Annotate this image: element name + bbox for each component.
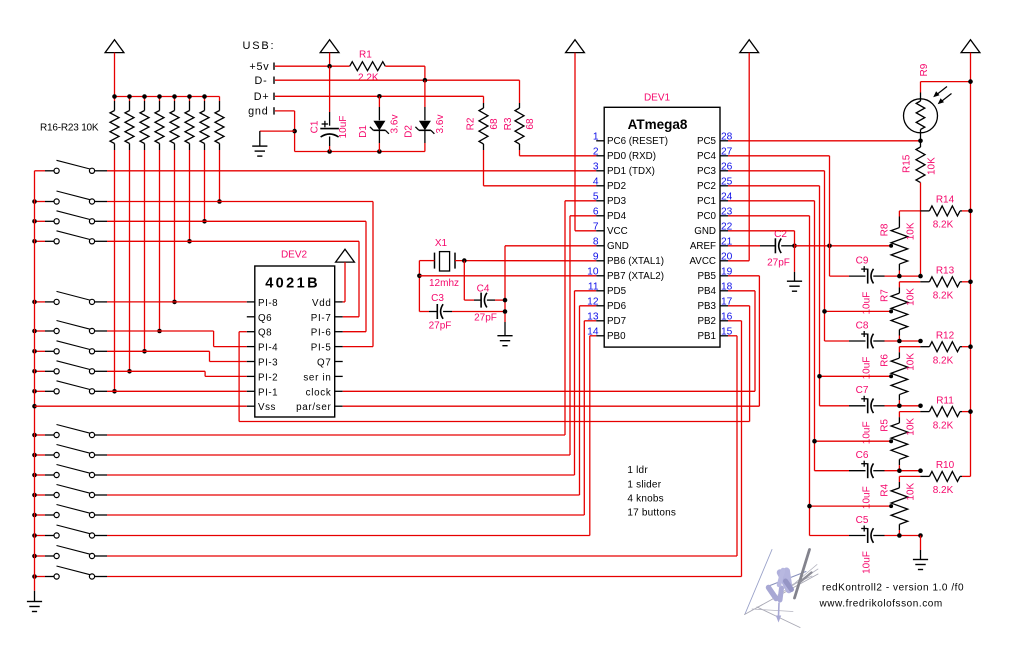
wire rail to S11	[35, 454, 46, 456]
svg-text:10K: 10K	[905, 353, 916, 371]
svg-text:R8: R8	[880, 223, 891, 236]
logo sketch	[745, 550, 819, 628]
pin 4021B PI-4	[247, 346, 255, 348]
junction D+ D1	[377, 94, 382, 99]
terminal usb D-	[273, 77, 275, 84]
wire PB7 pin10	[419, 275, 596, 277]
pin 6 PD4	[596, 215, 604, 217]
wire rail to S9	[35, 390, 46, 392]
junction chain C5	[897, 533, 902, 538]
svg-text:C9: C9	[856, 255, 869, 266]
wire S2 to PI-5	[107, 201, 373, 203]
svg-text:par/ser: par/ser	[296, 402, 331, 413]
capacitor C7 10uF	[849, 405, 866, 407]
junction gnd branch	[292, 129, 297, 134]
svg-text:2: 2	[593, 146, 599, 157]
wire R1 to D- node	[385, 65, 425, 67]
wire S4 to PI-7	[107, 240, 359, 242]
junction rail S6	[32, 329, 37, 334]
svg-text:USB:: USB:	[243, 40, 276, 52]
wire AREF pin21	[728, 245, 760, 247]
junction +5v C1	[327, 64, 332, 69]
junction rail C1	[327, 149, 332, 154]
junction rail S14	[32, 513, 37, 518]
switch S4	[45, 240, 54, 242]
wire S8 to PI-2	[107, 370, 205, 372]
svg-text:R9: R9	[919, 63, 930, 76]
switch S17	[45, 576, 54, 578]
switch S6	[45, 330, 54, 332]
svg-text:PD5: PD5	[607, 286, 627, 297]
capacitor C4 27pF	[474, 299, 481, 301]
svg-text:12: 12	[587, 296, 599, 307]
pin 4021B PI-1	[247, 390, 255, 392]
svg-text:8.2K: 8.2K	[933, 356, 954, 367]
switch S1	[45, 170, 54, 172]
svg-text:R1: R1	[359, 50, 372, 61]
pin 26 PC3	[720, 170, 728, 172]
svg-text:PD6: PD6	[607, 301, 627, 312]
svg-text:13: 13	[587, 311, 599, 322]
arrows LDR light	[936, 87, 948, 96]
svg-text:PD1 (TDX): PD1 (TDX)	[607, 166, 655, 177]
wire S17 to PB2 pin16	[107, 576, 742, 578]
ground usb	[259, 131, 261, 146]
svg-text:PC2: PC2	[697, 181, 716, 192]
junction rail R14	[968, 209, 973, 214]
junction bus R17	[127, 94, 132, 99]
junction rail Vss	[32, 404, 37, 409]
pin 15 PB1	[720, 335, 728, 337]
junction C3 gnd	[503, 309, 508, 314]
svg-text:Q6: Q6	[258, 313, 272, 324]
svg-text:11: 11	[588, 281, 599, 292]
junction wiper vertex R6	[889, 374, 893, 378]
junction rail LDR	[968, 79, 973, 84]
wire Vss to rail	[35, 405, 247, 407]
svg-text:8.2K: 8.2K	[933, 485, 954, 496]
potentiometer R6 10K	[898, 347, 900, 353]
capacitor C1 10uF	[329, 66, 331, 112]
svg-text:X1: X1	[435, 238, 448, 249]
wire D+ to R2	[483, 96, 485, 103]
pin 23 PC0	[720, 215, 728, 217]
wire GND pin8 to crystal ground	[505, 245, 596, 247]
wire X1 left	[419, 260, 434, 262]
junction wiper vertex R7	[889, 309, 893, 313]
pin 7 VCC	[596, 230, 604, 232]
pin 4021B Q8	[247, 331, 255, 333]
svg-text:ser in: ser in	[303, 372, 331, 383]
svg-text:3: 3	[593, 161, 599, 172]
op-amp U1 ATmega8 box	[604, 107, 720, 347]
svg-text:GND: GND	[694, 226, 716, 237]
junction bus C9	[918, 274, 923, 279]
capacitor C8 10uF	[849, 340, 866, 342]
svg-text:R12: R12	[936, 330, 955, 341]
resistor R2 68	[483, 103, 485, 108]
resistor R17 10K pullup	[129, 97, 131, 102]
svg-text:C6: C6	[856, 450, 869, 461]
svg-text:PC0: PC0	[697, 211, 717, 222]
wire usb bottom rail	[295, 151, 425, 153]
svg-text:PD0 (RXD): PD0 (RXD)	[607, 151, 656, 162]
svg-text:PI-6: PI-6	[311, 328, 332, 339]
wire column R16 to switch row	[114, 150, 116, 391]
svg-text:10uF: 10uF	[862, 551, 873, 574]
svg-text:R13: R13	[936, 266, 955, 277]
wire S11 to ATmega8 pin	[107, 454, 570, 456]
svg-text:C1: C1	[309, 120, 320, 133]
wire rail to S4	[35, 240, 46, 242]
wire wiper R7	[825, 310, 892, 312]
junction column R22	[202, 219, 207, 224]
wire rail top to LDR	[970, 53, 972, 477]
svg-text:3.6v: 3.6v	[390, 115, 401, 134]
junction rail S13	[32, 493, 37, 498]
wire S5 to PI-8	[107, 301, 247, 303]
svg-text:Vss: Vss	[258, 402, 276, 413]
pin 4021B PI-5	[335, 346, 343, 348]
svg-text:PD7: PD7	[607, 316, 626, 327]
junction rail R12	[968, 344, 973, 349]
junction rail S3	[32, 219, 37, 224]
wire D+ line	[275, 95, 484, 97]
svg-text:PI-2: PI-2	[258, 372, 278, 383]
svg-text:R6: R6	[880, 354, 891, 367]
svg-text:15: 15	[721, 326, 733, 337]
wire +5v line	[275, 65, 350, 67]
switch S8	[45, 370, 54, 372]
switch S5	[45, 301, 54, 303]
svg-text:1 ldr: 1 ldr	[627, 465, 648, 476]
resistor R23 10K pullup	[219, 97, 221, 102]
wire S6 to PI-4	[107, 330, 214, 332]
svg-text:10K: 10K	[905, 222, 916, 240]
pin 11 PD5	[596, 290, 604, 292]
svg-text:8.2K: 8.2K	[933, 291, 954, 302]
junction bus R16	[112, 94, 117, 99]
wire rail to S8	[35, 370, 46, 372]
junction rail S10	[32, 433, 37, 438]
pin 18 PB4	[720, 290, 728, 292]
junction X1-right	[462, 258, 467, 263]
wire wiper R6	[820, 375, 892, 377]
crystal X1 12mhz	[434, 253, 436, 269]
junction rail S12	[32, 473, 37, 478]
svg-text:12mhz: 12mhz	[429, 278, 459, 289]
wire S16 to PB1 pin15	[107, 555, 737, 557]
svg-text:PB3: PB3	[697, 301, 716, 312]
junction rail S16	[32, 554, 37, 559]
svg-text:DEV2: DEV2	[281, 250, 308, 261]
wire C2 to ground	[794, 246, 796, 272]
junction wiper vertex R5	[889, 439, 893, 443]
svg-text:D+: D+	[254, 91, 270, 103]
potentiometer R8 10K	[898, 211, 900, 217]
wire rail to S10	[35, 434, 46, 436]
terminal usb +5v	[273, 63, 275, 70]
pin 4021B Vdd	[335, 301, 343, 303]
junction bus R20	[172, 94, 177, 99]
capacitor C3 27pF	[419, 311, 429, 313]
junction bus R21	[187, 94, 192, 99]
svg-text:PC3: PC3	[697, 166, 717, 177]
svg-text:www.fredrikolofsson.com: www.fredrikolofsson.com	[819, 599, 943, 610]
pin 10 PB7 (XTAL2)	[596, 275, 604, 277]
pin 3 PD1 (TDX)	[596, 170, 604, 172]
junction column R19	[157, 329, 162, 334]
svg-text:10K: 10K	[905, 482, 916, 500]
pin 4 PD2	[596, 185, 604, 187]
svg-text:3.6v: 3.6v	[435, 115, 446, 134]
junction column R17	[127, 369, 132, 374]
resistor R12 8.2K	[899, 346, 920, 348]
pin 22 GND	[720, 230, 728, 232]
svg-text:2.2K: 2.2K	[358, 73, 379, 84]
svg-text:27pF: 27pF	[429, 321, 452, 332]
junction column R18	[142, 349, 147, 354]
junction rail S4	[32, 239, 37, 244]
ground left rail	[34, 591, 36, 602]
wire D- to R3	[519, 80, 521, 103]
svg-text:PB1: PB1	[697, 331, 716, 342]
pin 14 PB0	[596, 335, 604, 337]
pin 4021B PI-3	[247, 361, 255, 363]
svg-text:R5: R5	[880, 419, 891, 432]
svg-text:PI-5: PI-5	[311, 343, 332, 354]
pin 12 PD6	[596, 305, 604, 307]
svg-text:68: 68	[525, 118, 536, 130]
svg-text:+5v: +5v	[249, 61, 269, 73]
junction vertical wiper R4	[807, 504, 812, 509]
power VCC symbol P1 (pullup bank)	[105, 40, 124, 53]
svg-text:Vdd: Vdd	[312, 298, 332, 309]
potentiometer R5 10K	[898, 412, 900, 418]
power VCC symbol P6 (Vdd 4021B)	[336, 249, 355, 262]
svg-text:PD4: PD4	[607, 211, 627, 222]
resistor R3 68	[519, 103, 521, 108]
svg-text:R15: R15	[902, 154, 913, 173]
svg-text:R14: R14	[936, 195, 955, 206]
junction C2 ground	[792, 244, 797, 249]
wire left rail	[34, 171, 36, 591]
svg-text:68: 68	[489, 118, 500, 130]
resistor R11 8.2K	[899, 411, 920, 413]
wire rail to S13	[35, 494, 46, 496]
switch S13	[45, 494, 54, 496]
wire column R20 to switch row	[174, 150, 176, 302]
junction rail S17	[32, 574, 37, 579]
svg-text:C8: C8	[856, 320, 869, 331]
svg-text:C3: C3	[431, 293, 444, 304]
wire PC3 pin26 down	[728, 170, 825, 172]
wire +5v bus of pullup bank	[115, 96, 220, 98]
svg-text:PD3: PD3	[607, 196, 627, 207]
pin 4021B PI-2	[247, 375, 255, 377]
resistor R14 8.2K	[899, 210, 920, 212]
junction bus R22	[202, 94, 207, 99]
wire to usb ground	[260, 130, 295, 132]
resistor R15 10K	[920, 141, 922, 147]
svg-text:PB7 (XTAL2): PB7 (XTAL2)	[607, 271, 664, 282]
junction D- D2	[423, 78, 428, 83]
wire column R22 to switch row	[204, 150, 206, 221]
svg-text:PC5: PC5	[697, 136, 717, 147]
svg-text:R7: R7	[880, 289, 891, 302]
junction column R16	[112, 389, 117, 394]
pin 21 AREF	[720, 245, 728, 247]
potentiometer R4 10K	[898, 476, 900, 482]
switch S11	[45, 454, 54, 456]
wire rail to S7	[35, 350, 46, 352]
wire wiper R5	[815, 440, 892, 442]
power VCC symbol P2 (USB +5v)	[320, 40, 339, 53]
wire X1 right	[455, 260, 596, 262]
wire rail to S6	[35, 330, 46, 332]
pin 4021B PI-7	[335, 316, 343, 318]
wire column R23 to switch row	[219, 150, 221, 202]
svg-text:ATmega8: ATmega8	[628, 117, 688, 132]
wire S7 to PI-3	[107, 350, 210, 352]
svg-text:PI-3: PI-3	[258, 358, 278, 369]
resistor R13 8.2K	[899, 281, 920, 283]
svg-text:10K: 10K	[905, 288, 916, 306]
wire clock to PB4 pin18	[343, 390, 755, 392]
ground C2	[794, 272, 796, 281]
svg-text:PI-4: PI-4	[258, 343, 278, 354]
junction bus R18	[142, 94, 147, 99]
svg-text:Q8: Q8	[258, 328, 272, 339]
svg-text:6: 6	[593, 206, 599, 217]
svg-text:R4: R4	[880, 483, 891, 496]
op-amp U2 4021B box	[255, 266, 335, 417]
svg-text:8.2K: 8.2K	[933, 420, 954, 431]
ground right ladder	[920, 550, 922, 560]
resistor R16 10K pullup	[114, 97, 116, 102]
svg-text:clock: clock	[306, 387, 332, 398]
junction column R23	[217, 199, 222, 204]
wire R3 to PD0 pin2	[519, 150, 521, 156]
svg-text:C5: C5	[856, 515, 869, 526]
svg-text:PI-1: PI-1	[258, 387, 278, 398]
switch S15	[45, 535, 54, 537]
svg-text:Q7: Q7	[317, 358, 331, 369]
svg-text:14: 14	[587, 326, 599, 337]
wire wiper R4	[810, 505, 892, 507]
switch S10	[45, 434, 54, 436]
wire bus to ground	[920, 536, 922, 551]
junction chain C9	[897, 274, 902, 279]
switch S2	[45, 201, 54, 203]
junction pin27 vertical wiper R8	[827, 244, 832, 249]
svg-text:R11: R11	[936, 395, 954, 406]
wire rail to S2	[35, 201, 46, 203]
svg-text:4 knobs: 4 knobs	[627, 494, 663, 505]
svg-text:27pF: 27pF	[474, 313, 497, 324]
svg-text:4021B: 4021B	[265, 276, 320, 292]
resistor R1 2.2K	[350, 62, 386, 71]
wire PC2 pin25 down	[728, 185, 820, 187]
switch S9	[45, 390, 54, 392]
svg-text:PC1: PC1	[697, 196, 716, 207]
wire rail to S16	[35, 555, 46, 557]
wire GND pin22 down	[728, 230, 795, 232]
wire PC0 pin23 down	[728, 215, 810, 217]
wire Q8 to PB3 pin17	[239, 331, 247, 333]
wire rail to S1	[35, 170, 46, 172]
junction bus C8	[918, 339, 923, 344]
junction chain C6	[897, 468, 902, 473]
wire rail to S12	[35, 474, 46, 476]
resistor R22 10K pullup	[204, 97, 206, 102]
junction chain C7	[897, 404, 902, 409]
svg-text:GND: GND	[607, 241, 629, 252]
wire rail to S5	[35, 301, 46, 303]
wire PC4 pin27 down	[728, 155, 830, 157]
wire S1 to PD1 pin3	[107, 170, 596, 172]
junction bus C7	[918, 404, 923, 409]
junction rail D1	[377, 149, 382, 154]
pin 17 PB3	[720, 305, 728, 307]
wire PC1 pin24 down	[728, 200, 815, 202]
junction X1-left PB7	[417, 274, 422, 279]
pin 4021B Vss	[247, 405, 255, 407]
svg-text:8.2K: 8.2K	[933, 220, 954, 231]
svg-text:PI-8: PI-8	[258, 298, 278, 309]
power VCC symbol P5 (right rail)	[961, 40, 980, 53]
svg-text:PB5: PB5	[697, 271, 716, 282]
svg-text:AVCC: AVCC	[690, 256, 717, 267]
svg-text:R10: R10	[936, 460, 955, 471]
capacitor C9 10uF	[849, 275, 866, 277]
wire column R19 to switch row	[159, 150, 161, 331]
svg-text:10K: 10K	[905, 418, 916, 436]
pin 28 PC5	[720, 140, 728, 142]
junction wiper vertex R8	[889, 244, 893, 248]
wire AREF row to R8 wiper	[795, 245, 892, 247]
pin 27 PC4	[720, 155, 728, 157]
pin 19 PB5	[720, 275, 728, 277]
svg-text:AREF: AREF	[690, 241, 716, 252]
wire D- line	[275, 79, 520, 81]
pin 9 PB6 (XTAL1)	[596, 260, 604, 262]
junction vertical wiper R6	[817, 374, 822, 379]
svg-text:10uF: 10uF	[338, 116, 349, 139]
diode D1 zener	[378, 96, 380, 107]
wire par/ser to PB5 pin19	[343, 405, 760, 407]
switch S3	[45, 220, 54, 222]
svg-text:7: 7	[593, 221, 599, 232]
junction rail S7	[32, 349, 37, 354]
power VCC symbol P4 (AVCC)	[740, 40, 759, 53]
svg-text:4: 4	[593, 176, 599, 187]
svg-text:DEV1: DEV1	[644, 93, 671, 104]
svg-text:PB6 (XTAL1): PB6 (XTAL1)	[607, 256, 664, 267]
svg-text:R2: R2	[466, 117, 477, 130]
junction bus C6	[918, 468, 923, 473]
wire rail to S17	[35, 576, 46, 578]
svg-text:1 slider: 1 slider	[627, 480, 661, 491]
svg-text:PB2: PB2	[697, 316, 716, 327]
resistor R10 8.2K	[899, 475, 920, 477]
pin 4021B PI-8	[247, 301, 255, 303]
junction C4 gnd	[503, 298, 508, 303]
pin 4021B PI-6	[335, 331, 343, 333]
svg-text:PB0: PB0	[607, 331, 626, 342]
pin 4021B ser in	[335, 375, 343, 377]
switch S7	[45, 350, 54, 352]
